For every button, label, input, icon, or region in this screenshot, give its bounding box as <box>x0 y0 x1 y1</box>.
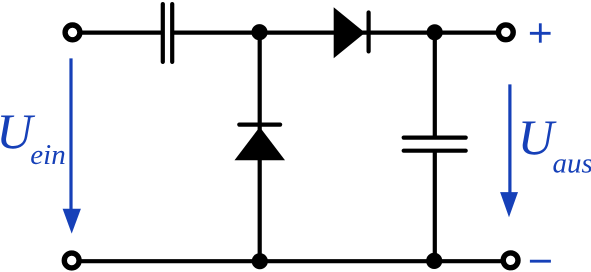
capacitor C1 (series, left plate) <box>161 4 165 62</box>
capacitor C2 (shunt, bottom plate) <box>404 149 466 153</box>
svg-text:U: U <box>518 109 557 165</box>
diode D2 (series, triangle) <box>334 7 365 58</box>
junction node bottom-right <box>426 253 442 269</box>
plus sign <box>530 23 551 42</box>
junction node top-left <box>251 24 267 40</box>
junction node bottom-left <box>252 253 268 269</box>
arrow Uaus head <box>500 192 518 217</box>
terminal top-left <box>65 25 80 40</box>
svg-text:ein: ein <box>30 139 65 171</box>
capacitor C2 (shunt, top plate) <box>404 136 466 140</box>
minus sign <box>530 260 551 263</box>
diode D2 (series, cathode bar) <box>367 13 371 52</box>
svg-text:aus: aus <box>553 148 591 180</box>
arrow Uaus shaft <box>508 84 511 195</box>
wire right vertical branch upper <box>433 33 437 138</box>
wire top-left segment <box>80 30 161 34</box>
arrow Uein head <box>63 209 81 234</box>
diode D1 (shunt, cathode bar) <box>239 122 280 126</box>
wire right vertical branch lower <box>433 151 437 262</box>
junction node top-right <box>427 24 443 40</box>
diode D1 (shunt, triangle) <box>235 127 286 160</box>
wire left vertical branch <box>258 33 262 262</box>
wire top-right of C1 to terminal <box>174 30 497 34</box>
terminal bottom-left <box>64 253 79 268</box>
capacitor C1 (series, right plate) <box>170 4 174 62</box>
arrow Uein shaft <box>69 58 72 212</box>
terminal top-right <box>498 25 513 40</box>
terminal bottom-right <box>503 253 518 268</box>
wire bottom <box>80 259 501 263</box>
